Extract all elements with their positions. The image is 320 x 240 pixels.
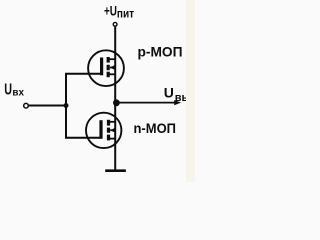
svg-text:U: U <box>4 81 12 98</box>
wire: input from terminal to gate bus <box>29 105 68 107</box>
page edge strip (right) <box>186 0 195 182</box>
wire: gate lead to VT2 <box>65 137 101 139</box>
svg-text:пит: пит <box>117 8 135 20</box>
junction: input node <box>64 103 69 108</box>
terminal +Uпит <box>113 22 117 26</box>
label Uвх <box>4 81 24 98</box>
ground <box>105 169 126 172</box>
junction: output node <box>113 99 120 106</box>
svg-text:U: U <box>164 85 174 101</box>
svg-text:вх: вх <box>12 87 24 99</box>
svg-text:+U: +U <box>104 2 117 18</box>
label Uвых <box>164 85 198 104</box>
wire: main vertical rail from +Uпит to ground <box>114 27 116 170</box>
transistor VT1 p-МОП <box>88 50 124 86</box>
terminal Uвх <box>24 103 29 108</box>
svg-text:n-МОП: n-МОП <box>134 121 177 136</box>
wire: gate bus vertical <box>65 74 67 138</box>
wire: gate lead to VT1 <box>65 73 101 75</box>
svg-text:p-МОП: p-МОП <box>138 45 183 60</box>
transistor VT2 n-МОП <box>86 113 121 148</box>
label +Uпит <box>104 2 134 20</box>
wire: output with arrow <box>115 102 175 104</box>
